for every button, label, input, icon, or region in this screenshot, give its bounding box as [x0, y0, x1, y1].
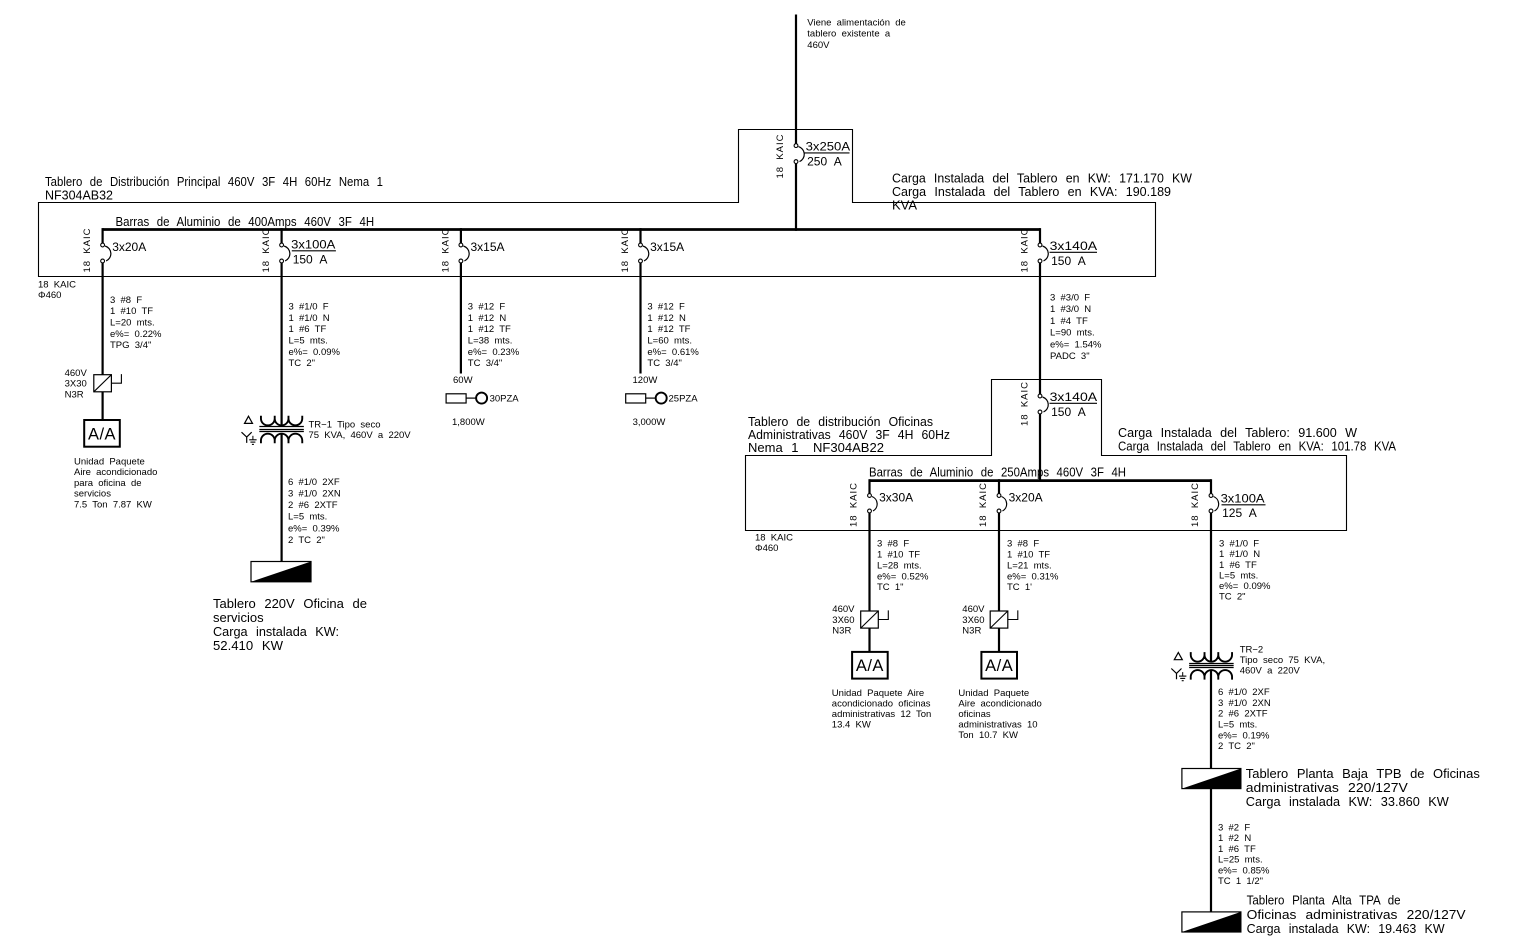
- label TR-1 nameplate: [309, 420, 412, 442]
- svg-text:Tablero 220V Oficina de: Tablero 220V Oficina de: [213, 596, 367, 611]
- cable spec label feeder CB1: [110, 295, 162, 351]
- lighting load 30PZA luminaires: [446, 393, 519, 405]
- label main panel title: [45, 174, 383, 202]
- svg-text:Tipo seco 75 KVA,: Tipo seco 75 KVA,: [1240, 655, 1325, 666]
- svg-text:18 KAIC: 18 KAIC: [82, 228, 93, 272]
- svg-text:3 #2 F: 3 #2 F: [1218, 822, 1250, 833]
- svg-text:150 A: 150 A: [1051, 405, 1086, 419]
- svg-text:3x140A: 3x140A: [1050, 390, 1098, 404]
- label load A/A oficinas administrativas 10 Ton: [958, 688, 1041, 741]
- svg-text:25PZA: 25PZA: [669, 394, 699, 405]
- svg-text:PADC 3": PADC 3": [1050, 351, 1090, 362]
- wire breaker stub (CB1 3x20A): [101, 228, 103, 243]
- wire incoming feeder (below main breaker): [795, 164, 797, 231]
- svg-text:1 #12 N: 1 #12 N: [468, 313, 507, 324]
- svg-text:3X60: 3X60: [962, 615, 984, 626]
- svg-text:e%= 1.54%: e%= 1.54%: [1050, 339, 1102, 350]
- svg-text:18 KAIC: 18 KAIC: [1190, 483, 1201, 527]
- svg-text:NF304AB22: NF304AB22: [813, 440, 884, 455]
- svg-text:3x15A: 3x15A: [471, 240, 505, 254]
- delta winding symbol (TR-2): [1174, 653, 1182, 660]
- svg-text:N3R: N3R: [65, 389, 84, 400]
- svg-text:18 KAIC: 18 KAIC: [775, 134, 786, 178]
- label incoming feeder note: [807, 18, 906, 51]
- svg-text:3X60: 3X60: [832, 615, 854, 626]
- svg-text:e%= 0.52%: e%= 0.52%: [877, 571, 929, 582]
- label 460V 3X60 N3R (DS3 460V 3X60 N3R): [962, 604, 985, 636]
- svg-text:e%= 0.22%: e%= 0.22%: [110, 329, 162, 340]
- svg-text:Barras de Aluminio de 250Amps: Barras de Aluminio de 250Amps 460V 3F 4H: [869, 465, 1126, 480]
- svg-text:3 #1/0 2XN: 3 #1/0 2XN: [288, 489, 341, 500]
- transformer TR-1: [259, 416, 304, 444]
- breaker CB8 3x20A: [997, 491, 1043, 513]
- svg-text:1 #12 N: 1 #12 N: [647, 313, 686, 324]
- wire breaker stub (CB2 3x100A): [281, 228, 283, 243]
- svg-text:3 #1/0 F: 3 #1/0 F: [1219, 539, 1259, 550]
- svg-text:2 TC 2": 2 TC 2": [288, 535, 325, 546]
- delta winding symbol (TR-1): [245, 416, 253, 423]
- svg-text:L=60 mts.: L=60 mts.: [647, 336, 692, 347]
- svg-text:1 #12 TF: 1 #12 TF: [468, 324, 511, 335]
- svg-text:Aire acondicionado: Aire acondicionado: [74, 467, 157, 478]
- svg-text:L=5 mts.: L=5 mts.: [288, 512, 327, 523]
- breaker CB7 3x30A: [868, 491, 914, 513]
- svg-text:3x140A: 3x140A: [1050, 239, 1098, 253]
- svg-text:L=38 mts.: L=38 mts.: [468, 336, 513, 347]
- svg-text:1 #10 TF: 1 #10 TF: [877, 550, 920, 561]
- label Tablero 220V Oficina de servicios: [213, 596, 367, 653]
- svg-text:18 KAIC: 18 KAIC: [440, 228, 451, 272]
- svg-text:1 #6 TF: 1 #6 TF: [1219, 560, 1257, 571]
- wire CB2 to TR-1: [281, 263, 283, 426]
- svg-text:TC 2": TC 2": [1219, 592, 1246, 603]
- wye-ground winding symbol (TR-2): [1171, 669, 1186, 681]
- svg-text:administrativas 12 Ton: administrativas 12 Ton: [832, 709, 932, 720]
- svg-text:L=5 mts.: L=5 mts.: [1219, 570, 1258, 581]
- svg-text:1 #6 TF: 1 #6 TF: [1218, 844, 1256, 855]
- cable spec label feeder CB8: [1007, 539, 1059, 594]
- svg-text:3 #12 F: 3 #12 F: [647, 302, 685, 313]
- cable spec label feeder CB5: [1050, 293, 1102, 363]
- panelboard symbol Tablero Planta Alta TPA: [1182, 912, 1241, 932]
- label 460V 3X60 N3R (DS2 460V 3X60 N3R): [832, 604, 855, 636]
- svg-text:1 #10 TF: 1 #10 TF: [110, 306, 153, 317]
- svg-text:125 A: 125 A: [1222, 506, 1257, 520]
- svg-text:Barras de Aluminio de 400Amps: Barras de Aluminio de 400Amps 460V 3F 4H: [116, 214, 375, 229]
- svg-text:30PZA: 30PZA: [490, 394, 520, 405]
- transformer TR-2: [1189, 652, 1234, 680]
- wire switch DS1 to A/A unit: [101, 392, 103, 420]
- svg-text:460V: 460V: [832, 604, 855, 615]
- svg-text:TR−2: TR−2: [1240, 645, 1264, 656]
- svg-text:L=5 mts.: L=5 mts.: [1218, 720, 1257, 731]
- svg-text:N3R: N3R: [832, 626, 851, 637]
- svg-text:e%= 0.31%: e%= 0.31%: [1007, 571, 1059, 582]
- svg-text:TC 1": TC 1": [877, 582, 904, 593]
- svg-text:tablero existente a: tablero existente a: [807, 29, 891, 40]
- svg-text:75 KVA, 460V a 220V: 75 KVA, 460V a 220V: [309, 430, 412, 441]
- svg-text:3x250A: 3x250A: [806, 140, 851, 154]
- svg-text:3 #3/0 F: 3 #3/0 F: [1050, 293, 1090, 304]
- svg-text:150 A: 150 A: [1051, 254, 1086, 268]
- svg-text:para oficina de: para oficina de: [74, 478, 142, 489]
- load A/A unit 3: [981, 652, 1017, 679]
- svg-text:3 #12 F: 3 #12 F: [468, 302, 506, 313]
- label Tablero Planta Alta TPA: [1247, 893, 1466, 937]
- svg-text:18 KAIC: 18 KAIC: [755, 532, 793, 543]
- svg-text:Φ460: Φ460: [755, 543, 778, 554]
- label load A/A oficinas administrativas 12 Ton: [832, 688, 932, 731]
- svg-text:L=25 mts.: L=25 mts.: [1218, 855, 1263, 866]
- svg-text:A/A: A/A: [856, 657, 884, 675]
- svg-text:TC 1 1/2": TC 1 1/2": [1218, 876, 1263, 887]
- panelboard symbol Tablero Planta Baja TPB: [1182, 769, 1241, 789]
- svg-text:3x20A: 3x20A: [1009, 491, 1043, 505]
- cable spec label feeder CB4: [647, 302, 699, 370]
- wire CB9 to TR-2: [1210, 513, 1212, 662]
- load A/A unit 1: [84, 420, 120, 447]
- wire breaker stub (CB9 3x100A): [1210, 479, 1212, 493]
- svg-text:Carga Instalada del Tablero en: Carga Instalada del Tablero en KVA: 190.…: [892, 184, 1171, 199]
- wire CB7 to disconnect switch: [868, 513, 870, 611]
- wire breaker stub (CB5 3x140A): [1039, 228, 1041, 243]
- wire CB1 to disconnect switch: [101, 263, 103, 375]
- svg-text:e%= 0.09%: e%= 0.09%: [1219, 581, 1271, 592]
- svg-text:Φ460: Φ460: [38, 290, 61, 301]
- wire incoming feeder (top): [795, 15, 797, 144]
- svg-text:Tablero Planta Alta TPA de: Tablero Planta Alta TPA de: [1247, 893, 1401, 908]
- svg-text:TC 1': TC 1': [1007, 582, 1032, 593]
- svg-text:3 #1/0 F: 3 #1/0 F: [289, 302, 329, 313]
- bus 2: 250A aluminium bus bar: [870, 479, 1212, 482]
- svg-text:Unidad Paquete: Unidad Paquete: [958, 688, 1029, 699]
- breaker CB1 3x20A: [101, 240, 147, 263]
- svg-text:3 #8 F: 3 #8 F: [110, 295, 142, 306]
- svg-text:3x100A: 3x100A: [291, 238, 335, 252]
- svg-text:L=21 mts.: L=21 mts.: [1007, 560, 1052, 571]
- label 18 KAIC Φ460 (main panel): [38, 280, 76, 301]
- svg-text:1 #2 N: 1 #2 N: [1218, 833, 1251, 844]
- wire breaker stub (CB8 3x20A): [998, 479, 1000, 493]
- svg-text:TC 2": TC 2": [289, 358, 316, 369]
- wire CB4 to lighting load: [639, 263, 641, 374]
- svg-text:KVA: KVA: [892, 197, 917, 212]
- main distribution panel enclosure (Tablero de Distribución Principal): [39, 130, 1156, 277]
- svg-text:1,800W: 1,800W: [452, 417, 485, 428]
- wire CB3 to lighting load: [460, 263, 462, 374]
- svg-text:3 #8 F: 3 #8 F: [1007, 539, 1039, 550]
- wire breaker stub (CB4 3x15A): [639, 228, 641, 243]
- svg-text:1 #6 TF: 1 #6 TF: [289, 324, 327, 335]
- cable spec label feeder TR-1 secondary: [288, 477, 341, 546]
- svg-text:e%= 0.39%: e%= 0.39%: [288, 523, 340, 534]
- wire Tablero TPB to Tablero TPA: [1210, 789, 1212, 912]
- label Tablero Planta Baja TPB: [1246, 766, 1480, 809]
- svg-text:52.410 KW: 52.410 KW: [213, 638, 284, 653]
- breaker CB9 3x100A: [1209, 492, 1265, 521]
- svg-text:NF304AB32: NF304AB32: [45, 187, 113, 202]
- svg-text:TR−1 Tipo seco: TR−1 Tipo seco: [309, 420, 381, 431]
- svg-text:3x100A: 3x100A: [1221, 492, 1265, 506]
- breaker CB3 3x15A: [459, 240, 505, 263]
- svg-text:6 #1/0 2XF: 6 #1/0 2XF: [288, 477, 340, 488]
- svg-text:18 KAIC: 18 KAIC: [849, 483, 860, 527]
- svg-text:2 TC 2": 2 TC 2": [1218, 741, 1255, 752]
- svg-text:L=20 mts.: L=20 mts.: [110, 318, 155, 329]
- svg-text:3 #8 F: 3 #8 F: [877, 539, 909, 550]
- svg-text:1 #1/0 N: 1 #1/0 N: [1219, 549, 1260, 560]
- svg-text:N3R: N3R: [962, 626, 981, 637]
- wire breaker stub (CB7 3x30A): [868, 479, 870, 493]
- svg-text:TC 3/4": TC 3/4": [647, 358, 681, 369]
- svg-text:18 KAIC: 18 KAIC: [1020, 382, 1031, 426]
- wire CB8 to disconnect switch: [998, 513, 1000, 611]
- breaker CB2 3x100A: [280, 238, 336, 267]
- svg-text:L=28 mts.: L=28 mts.: [877, 560, 922, 571]
- svg-text:1 #12 TF: 1 #12 TF: [647, 324, 690, 335]
- svg-text:acondicionado oficinas: acondicionado oficinas: [832, 699, 931, 710]
- svg-text:Nema 1: Nema 1: [748, 440, 799, 455]
- wire switch DS3 to A/A unit: [998, 628, 1000, 652]
- svg-text:Aire acondicionado: Aire acondicionado: [958, 699, 1041, 710]
- svg-text:Tablero Planta Baja TPB de Ofi: Tablero Planta Baja TPB de Oficinas: [1246, 766, 1480, 781]
- wire TR-2 to Tablero TPB: [1210, 670, 1212, 769]
- svg-text:7.5 Ton 7.87 KW: 7.5 Ton 7.87 KW: [74, 500, 152, 511]
- svg-text:18 KAIC: 18 KAIC: [620, 228, 631, 272]
- svg-text:13.4 KW: 13.4 KW: [832, 720, 871, 731]
- wye-ground winding symbol (TR-1): [242, 432, 257, 444]
- svg-text:servicios: servicios: [213, 610, 264, 625]
- svg-text:460V a 220V: 460V a 220V: [1240, 666, 1301, 677]
- disconnect switch DS3 460V 3X60 N3R: [990, 610, 1018, 628]
- svg-text:1 #3/0 N: 1 #3/0 N: [1050, 304, 1091, 315]
- svg-text:150 A: 150 A: [293, 253, 328, 267]
- label secondary panel title: [748, 414, 950, 455]
- svg-text:Unidad Paquete: Unidad Paquete: [74, 456, 145, 467]
- disconnect switch DS2 460V 3X60 N3R: [861, 610, 889, 628]
- svg-text:460V: 460V: [807, 40, 830, 51]
- svg-text:Unidad Paquete Aire: Unidad Paquete Aire: [832, 688, 924, 699]
- svg-text:Oficinas administrativas 220/1: Oficinas administrativas 220/127V: [1247, 907, 1466, 922]
- svg-text:oficinas: oficinas: [958, 709, 990, 720]
- svg-text:Carga instalada KW: 19.463 KW: Carga instalada KW: 19.463 KW: [1247, 921, 1446, 936]
- svg-text:250 A: 250 A: [807, 155, 842, 169]
- svg-text:18 KAIC: 18 KAIC: [1020, 228, 1031, 272]
- svg-text:L=90 mts.: L=90 mts.: [1050, 328, 1095, 339]
- svg-text:3,000W: 3,000W: [633, 417, 666, 428]
- svg-text:3 #1/0 2XN: 3 #1/0 2XN: [1218, 698, 1271, 709]
- svg-text:60W: 60W: [453, 375, 473, 386]
- svg-text:18 KAIC: 18 KAIC: [261, 228, 272, 272]
- svg-text:Carga Instalada del Tablero en: Carga Instalada del Tablero en KVA: 101.…: [1118, 438, 1396, 453]
- svg-text:460V: 460V: [962, 604, 985, 615]
- svg-text:2 #6 2XTF: 2 #6 2XTF: [1218, 709, 1268, 720]
- svg-text:administrativas 10: administrativas 10: [958, 720, 1037, 731]
- label 18 KAIC Φ460 (secondary panel): [755, 532, 793, 554]
- label Carga Instalada main panel: [892, 171, 1193, 213]
- svg-text:e%= 0.19%: e%= 0.19%: [1218, 730, 1270, 741]
- disconnect switch DS1 460V 3X30 N3R: [94, 374, 122, 392]
- load A/A unit 2: [852, 652, 888, 679]
- breaker CB-MAIN 3x250A: [794, 140, 850, 169]
- breaker CB5 3x140A: [1038, 239, 1097, 268]
- svg-text:3x15A: 3x15A: [650, 240, 684, 254]
- svg-text:Ton 10.7 KW: Ton 10.7 KW: [958, 730, 1018, 741]
- lighting load 25PZA luminaires: [626, 393, 699, 405]
- svg-text:3X30: 3X30: [65, 379, 87, 390]
- bus 1: 400A aluminium bus bar: [103, 228, 1040, 231]
- svg-text:e%= 0.61%: e%= 0.61%: [647, 347, 699, 358]
- svg-text:Viene alimentación de: Viene alimentación de: [807, 18, 906, 29]
- wire CB5 to sub-feed breaker: [1039, 263, 1041, 394]
- svg-text:TC 3/4": TC 3/4": [468, 358, 502, 369]
- svg-text:L=5 mts.: L=5 mts.: [289, 336, 328, 347]
- cable spec label feeder CB9: [1219, 539, 1271, 603]
- cable spec label feeder CB2: [289, 302, 341, 370]
- cable spec label feeder CB7: [877, 539, 929, 594]
- wire sub-feed breaker to bus 2: [1039, 414, 1041, 482]
- label load A/A oficina de servicios: [74, 456, 157, 510]
- wire switch DS2 to A/A unit: [868, 628, 870, 652]
- cable spec label feeder TPB to TPA: [1218, 822, 1270, 887]
- svg-text:6 #1/0 2XF: 6 #1/0 2XF: [1218, 687, 1270, 698]
- svg-text:18 KAIC: 18 KAIC: [978, 483, 989, 527]
- svg-text:TPG 3/4": TPG 3/4": [110, 340, 151, 351]
- svg-text:A/A: A/A: [985, 657, 1013, 675]
- svg-text:1 #4 TF: 1 #4 TF: [1050, 316, 1088, 327]
- svg-text:120W: 120W: [633, 375, 658, 386]
- svg-text:3x30A: 3x30A: [879, 491, 913, 505]
- svg-text:servicios: servicios: [74, 489, 111, 500]
- svg-text:e%= 0.09%: e%= 0.09%: [289, 347, 341, 358]
- breaker CB6 3x140A (sub-feed): [1038, 390, 1097, 419]
- cable spec label feeder CB3: [468, 302, 520, 370]
- label 460V 3X30 N3R (DS1 460V 3X30 N3R): [65, 368, 88, 400]
- label TR-2 nameplate: [1240, 645, 1325, 677]
- svg-text:administrativas 220/127V: administrativas 220/127V: [1246, 780, 1408, 795]
- breaker CB4 3x15A: [639, 240, 685, 263]
- panelboard symbol Tablero 220V Oficina de servicios: [251, 562, 311, 582]
- wire TR-1 to Tablero 220V: [281, 434, 283, 562]
- svg-text:1 #10 TF: 1 #10 TF: [1007, 550, 1050, 561]
- svg-text:A/A: A/A: [88, 425, 116, 443]
- svg-text:1 #1/0 N: 1 #1/0 N: [289, 313, 330, 324]
- svg-text:2 #6 2XTF: 2 #6 2XTF: [288, 500, 338, 511]
- svg-text:e%= 0.85%: e%= 0.85%: [1218, 865, 1270, 876]
- svg-text:460V: 460V: [65, 368, 88, 379]
- svg-text:Carga instalada KW: 33.860 KW: Carga instalada KW: 33.860 KW: [1246, 794, 1450, 809]
- label Carga Instalada secondary panel: [1118, 425, 1396, 453]
- cable spec label feeder TR-2 secondary: [1218, 687, 1271, 752]
- secondary panel enclosure (Tablero de distribución Oficinas Administrativas): [746, 380, 1347, 531]
- svg-text:Carga instalada KW:: Carga instalada KW:: [213, 624, 339, 639]
- svg-text:e%= 0.23%: e%= 0.23%: [468, 347, 520, 358]
- svg-text:3x20A: 3x20A: [112, 240, 146, 254]
- wire breaker stub (CB3 3x15A): [460, 228, 462, 243]
